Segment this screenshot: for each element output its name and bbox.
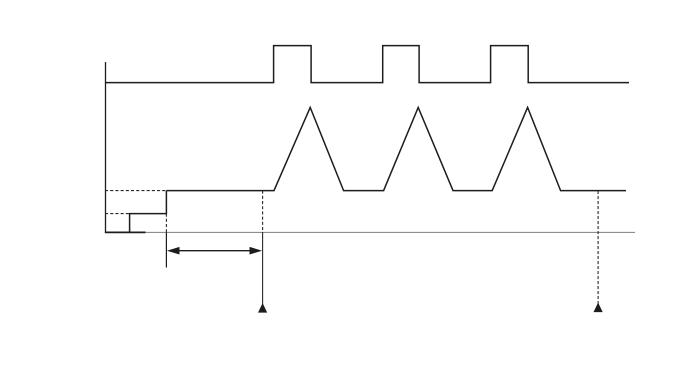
right marker dashed line x=598 <box>597 191 599 304</box>
step waveform (lower-left trace) <box>130 191 167 233</box>
bottom axis black segment <box>105 231 146 233</box>
dashed reference level y=213 <box>105 213 130 215</box>
left marker solid line x=262.5 (below axis) <box>262 232 264 305</box>
dashed vertical at x=166 (step to axis) <box>165 214 167 233</box>
triangle waveform (middle trace) <box>166 107 626 190</box>
bottom axis gray segment <box>146 231 635 233</box>
tick x=166 below axis <box>165 232 167 267</box>
left marker arrowhead triangle <box>258 303 267 313</box>
left marker dashed line x=262.5 (above axis) <box>262 191 264 232</box>
right marker arrowhead triangle <box>594 303 603 313</box>
dashed reference level y=190 <box>105 190 166 192</box>
vertical axis <box>105 62 107 233</box>
pulse waveform (top trace) <box>105 46 629 83</box>
dimension arrow (double-headed) <box>167 247 262 255</box>
